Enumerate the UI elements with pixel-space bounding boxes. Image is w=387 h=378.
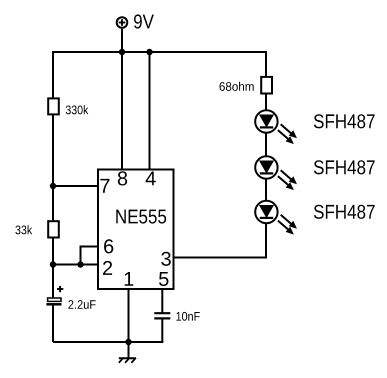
pin number 3	[161, 252, 171, 266]
wire R1 to node A	[52, 115, 54, 186]
wire D3 to pin3 corner	[173, 224, 267, 258]
label SFH487 third	[314, 205, 375, 219]
resistor R2 33k	[48, 221, 59, 237]
wire pin5 drop	[161, 288, 163, 313]
label 330k	[66, 105, 89, 114]
wire pin4 drop	[149, 52, 151, 170]
node A junction	[50, 183, 56, 189]
resistor R1 330k	[48, 98, 59, 114]
node B junction	[50, 261, 56, 267]
label 9V	[134, 14, 154, 28]
wire C2 to bottom rail	[161, 318, 163, 342]
label SFH487 first	[314, 114, 375, 128]
LED D1 SFH487	[255, 110, 297, 144]
wire pin8 drop	[121, 52, 123, 170]
wire node A to R2	[52, 186, 54, 222]
pin number 7	[100, 179, 109, 193]
pin number 2	[103, 261, 112, 275]
node pin4 junction	[146, 49, 152, 55]
LED D3 SFH487	[255, 201, 297, 235]
wire D1 to D2	[265, 134, 267, 157]
wire V+ top rail	[53, 51, 266, 53]
label NE555	[116, 210, 166, 224]
wire right drop to R3	[265, 51, 267, 77]
label 2.2uF	[68, 300, 95, 309]
capacitor C1 2.2uF	[46, 298, 61, 304]
wire R2 to node B	[52, 238, 54, 298]
label 33k	[15, 225, 32, 234]
node pin6-pin2 junction	[77, 261, 83, 267]
wire D2 to D3	[265, 180, 267, 202]
pin number 5	[159, 272, 169, 286]
wire C1 to bottom rail	[52, 305, 54, 342]
wire pin1 drop	[128, 288, 130, 342]
pin number 8	[118, 171, 127, 185]
wire R3 to D1	[265, 94, 267, 112]
wire 9V stub	[121, 29, 123, 52]
wire bottom rail	[53, 341, 163, 343]
label 10nF	[176, 312, 199, 321]
wire pin2	[53, 264, 99, 266]
node pin8 junction	[119, 49, 125, 55]
wire pin7	[53, 185, 99, 187]
label SFH487 second	[314, 160, 375, 174]
pin number 4	[146, 172, 156, 186]
wire ground stub	[128, 342, 130, 359]
label 68ohm	[220, 82, 254, 91]
IC U1 NE555 body	[98, 170, 174, 290]
wire left drop to R1	[52, 51, 54, 99]
LED D2 SFH487	[255, 156, 297, 190]
wire pin6 jog	[81, 247, 100, 265]
capacitor C2 10nF	[154, 313, 170, 318]
capacitor C1 2.2uF plus sign	[57, 286, 63, 292]
resistor R3 68ohm	[261, 77, 272, 94]
power +9V symbol	[117, 17, 128, 28]
ground symbol	[119, 358, 136, 363]
pin number 1	[125, 272, 134, 286]
pin number 6	[104, 239, 113, 253]
node ground junction	[125, 339, 131, 345]
